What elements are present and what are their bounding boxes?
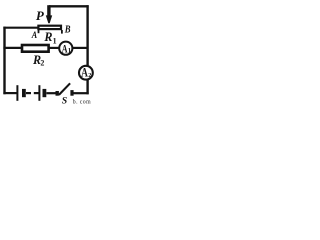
wire: bottom-left corner to battery: [3, 92, 17, 94]
wire: right side vertical upper (corner down to ammeter A2): [86, 5, 88, 65]
wire: A1 to right side (T junction): [72, 47, 88, 49]
wire: battery to switch: [46, 92, 55, 94]
label A2 inside meter: [81, 65, 91, 79]
switch S: left contact nub: [56, 91, 59, 96]
svg-text:P: P: [36, 8, 45, 23]
svg-text:2: 2: [88, 72, 91, 79]
resistor R2 box: [22, 45, 49, 52]
svg-text:1: 1: [53, 37, 57, 46]
rheostat terminal stub left (above label A): [38, 30, 40, 33]
battery cell 2: long plate (+): [38, 85, 40, 101]
svg-text:A: A: [31, 30, 38, 41]
wire: top from slider P to top-right corner: [49, 5, 89, 7]
svg-text:R: R: [43, 30, 52, 44]
battery cell 1: short thick plate (-): [22, 89, 26, 97]
switch S: right contact nub: [70, 90, 73, 96]
wire: right side vertical lower (A2 down to bottom-right corner): [86, 79, 88, 94]
svg-text:2: 2: [40, 59, 44, 68]
ammeter A1 circle: [59, 42, 72, 55]
svg-text:1: 1: [68, 48, 72, 55]
switch S: open blade: [59, 83, 70, 95]
label R2 under box: [32, 53, 44, 68]
wire: top-left horizontal to rheostat terminal A: [3, 27, 38, 29]
svg-text:S: S: [62, 95, 68, 105]
battery cell 2: short thick plate (-): [43, 89, 47, 97]
label A1 inside meter: [62, 41, 72, 55]
rheostat R1 box: [38, 26, 61, 29]
wire: between battery cells: [26, 92, 39, 94]
wire: R2 to ammeter A1: [48, 47, 59, 49]
wire: left side vertical: [3, 27, 5, 95]
slider arrow P (shaft + arrowhead pointing down into R1): [46, 5, 52, 23]
wire: bottom right (switch to bottom-right corner): [73, 92, 88, 94]
battery cell 1: long plate (+): [16, 85, 18, 101]
wire: left vertical to R2: [3, 47, 21, 49]
ammeter A2 circle: [79, 66, 93, 80]
rheostat terminal stub right (terminal B): [61, 30, 63, 34]
svg-text:b. com: b. com: [73, 100, 91, 105]
label R1 under rheostat box: [43, 30, 56, 46]
svg-text:B: B: [64, 24, 71, 35]
